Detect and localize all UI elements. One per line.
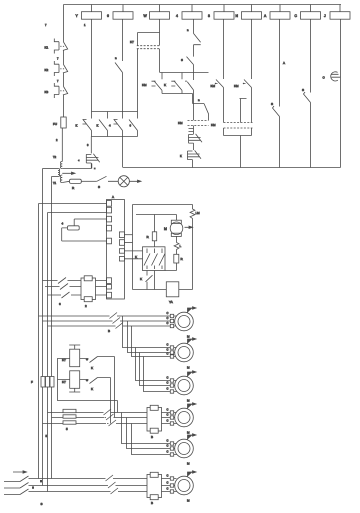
svg-text:YA: YA [169,300,173,304]
svg-text:C: C [167,380,169,384]
contact KM5a [211,19,224,88]
contact K4a on KM4 column [187,19,201,56]
coil KM2 [107,5,133,20]
fuse FU2c [50,377,54,388]
svg-text:C: C [167,316,169,320]
svg-text:J: J [324,14,326,18]
wire M4 cont [113,413,147,424]
svg-text:S: S [98,185,100,189]
svg-text:1: 1 [84,23,86,27]
svg-text:n: n [198,98,200,102]
wire tap to strip 2 [48,212,107,214]
brake YA [166,282,179,304]
terminal L7 [107,285,112,290]
svg-text:K: K [135,255,137,259]
terminal M1-1 [167,311,174,318]
svg-text:M: M [187,462,190,466]
wire tap to strip 1 [39,203,107,205]
contact KM3a [185,73,193,121]
svg-text:4: 4 [109,124,111,128]
svg-text:M: M [187,335,190,339]
svg-text:L: L [180,244,182,248]
svg-text:C: C [167,407,169,411]
svg-text:C: C [167,351,169,355]
wire M4 out [162,413,177,424]
resistor R6 [63,415,76,418]
wire KM3 drop and branch [138,19,160,45]
arrow M3 [188,371,197,377]
contact SQ2 [302,19,311,167]
wire to resistor [62,181,69,182]
transformer TV secondary1 [58,169,60,177]
motor M6 [175,476,194,502]
wire staircase node C down [162,94,204,104]
contact bracket below dash1 [189,126,194,135]
fuse FU2b [46,377,50,388]
arrow mid tap [62,172,75,174]
svg-text:R: R [181,257,184,261]
svg-text:C: C [167,418,169,422]
thermal KK3 [180,150,201,167]
breaker pole QF6a [104,475,115,481]
terminal M4-1 [167,407,174,414]
svg-text:M: M [187,399,190,403]
contact KT1a [80,357,115,371]
svg-text:6: 6 [59,302,61,306]
motor M1 [175,312,194,338]
coil KM8 [295,5,321,20]
wire bottom bus [123,167,341,169]
wire below KT link [138,49,160,112]
terminal R2 [119,240,132,246]
breaker pole QF4c [107,420,118,426]
wire node B to bottom bus [122,137,124,168]
svg-text:9: 9 [87,143,89,147]
relay KT1 [62,345,80,367]
svg-text:7: 7 [57,57,59,61]
contact row1 c3 [114,112,123,137]
svg-text:7: 7 [45,23,47,27]
terminal L4 [107,225,112,231]
terminal M6-3 [167,486,174,493]
svg-text:S: S [41,502,43,506]
terminal L6 [107,278,112,284]
breaker pole QF1a [108,313,119,319]
svg-text:C: C [167,449,169,453]
wire top bus [64,4,342,6]
terminal M4-2 [167,412,174,419]
svg-text:C: C [167,375,169,379]
terminal M2-3 [167,351,174,358]
svg-text:K: K [91,366,93,370]
terminal R1 [119,232,132,238]
coil KM1 [76,5,102,20]
svg-text:M: M [187,499,190,503]
coil KM5 [208,5,234,20]
breaker pole QF6b [107,482,118,488]
wire R3 to contact box [154,241,156,247]
terminal M2-2 [167,347,174,354]
contact SB1 [45,39,68,54]
wire tap right to KK1 [62,164,92,169]
svg-text:C: C [167,386,169,390]
svg-text:C: C [167,412,169,416]
wire tap lower-left [52,176,59,178]
switch blade c [62,292,82,298]
node line C [160,72,209,74]
wire M6 run [29,479,110,492]
wire tap left [43,168,59,170]
inductor LM2 [174,236,181,249]
svg-text:KM: KM [211,84,216,88]
terminal R4 [119,257,142,262]
arrow M5 [188,434,197,440]
svg-text:6: 6 [107,14,109,18]
svg-text:T1: T1 [53,181,57,185]
coil KM4 [176,5,202,20]
wire bus N [51,177,53,479]
svg-text:R: R [72,186,75,190]
svg-text:S: S [271,102,273,106]
breaker pole QF4b [105,414,116,420]
arrow motor M0 [185,226,193,228]
wire resistor to switch [81,180,97,182]
wire M3 branch [136,348,177,392]
wire M6 out [162,479,177,492]
wire rail to transformer [61,128,63,162]
svg-text:2: 2 [56,138,58,142]
svg-text:4: 4 [176,14,178,18]
contact K4b on KM4 column [181,57,194,73]
node line A [92,111,138,113]
coil KM3 [144,5,170,20]
wire resistor top jog [74,219,106,226]
svg-text:7: 7 [57,79,59,83]
wire M5 branch [122,413,177,455]
transformer TV secondary2 [53,175,62,185]
svg-text:C: C [167,480,169,484]
svg-text:2: 2 [85,304,87,308]
contact KM2a [164,73,182,94]
svg-text:LM: LM [196,211,201,215]
wire KT verticals [111,357,118,424]
contact K5 [198,98,209,120]
inductor LM1 [190,209,200,218]
terminal M5-2 [167,443,174,450]
terminal L3 [107,216,112,222]
contact SQ1 [271,19,285,167]
svg-text:C: C [323,76,326,80]
svg-text:C: C [167,342,169,346]
terminal M2-1 [167,342,174,349]
lamp HL [118,176,129,187]
terminal M3-2 [167,380,174,387]
breaker pole QF6c [109,488,120,494]
svg-text:K: K [76,124,78,128]
breaker pole QF1c [114,323,125,329]
svg-text:C: C [167,438,169,442]
contactor KM6 box [147,472,162,499]
wire bus L3 [47,213,49,492]
node line B [92,136,138,138]
svg-text:n: n [187,28,189,32]
contact row1 c4 [129,112,138,137]
wire bus L2 [42,169,44,486]
svg-text:8: 8 [208,14,210,18]
svg-text:KM: KM [178,121,183,125]
contact KM1a [142,73,162,94]
svg-text:6: 6 [130,124,132,128]
terminal R3 [119,249,142,254]
terminal M4-3 [167,418,174,425]
motor M4 [175,408,194,434]
svg-text:KM: KM [211,123,216,127]
svg-text:B: B [108,329,110,333]
svg-text:C: C [167,347,169,351]
contact SB3 [45,83,68,98]
terminal M1-2 [167,316,174,323]
wire below dash2 [224,128,252,168]
contact row1 c1 [83,112,92,137]
resistor R4 [174,250,184,264]
switch blade b [60,284,81,290]
svg-text:n: n [115,56,117,60]
switch QS b [20,483,29,489]
resistor R7 [63,421,76,424]
wire box5/6 columns to dash2 [224,88,252,123]
svg-text:C: C [167,321,169,325]
arrow M1 [188,307,197,313]
svg-text:R: R [147,235,150,239]
svg-text:5: 5 [66,427,68,431]
terminal M5-3 [167,449,174,456]
wire R4 down [155,263,177,290]
svg-text:KT: KT [130,40,134,44]
svg-text:KM: KM [142,83,147,87]
svg-text:K: K [97,124,99,128]
svg-text:C: C [167,473,169,477]
arrow M2 [188,338,197,344]
switch QS a [20,476,29,482]
mech link KM dashed 2 [211,123,253,129]
svg-text:F: F [31,380,33,384]
svg-text:C: C [167,486,169,490]
svg-text:C: C [167,443,169,447]
svg-text:K1: K1 [45,46,49,50]
wire midbox feed [43,281,62,296]
contact row1 c2 [99,112,108,137]
wire KT left loop [58,359,118,401]
contact box KM block [135,247,165,271]
contact KM lower [140,271,153,290]
dc motor M0 [164,220,183,236]
svg-text:KT: KT [62,380,66,384]
terminal M1-3 [167,321,174,328]
switch QS c [20,489,29,495]
wire drive loop [133,205,193,290]
wire midbox to strip [96,281,107,296]
contactor KM4 box [147,405,162,433]
wire supply stubs [4,482,20,495]
wire M2 branch [123,316,177,357]
contact KT2a [80,378,111,392]
motor M5 [175,439,194,465]
wire drop KM1 column [91,19,93,111]
svg-text:S: S [181,58,183,62]
svg-text:K: K [180,154,182,158]
junction J1 [40,480,42,482]
svg-text:A: A [283,61,285,65]
svg-text:N: N [236,14,239,18]
svg-text:M: M [164,227,167,231]
wire rail segments [63,5,65,118]
thermal KK2 [189,134,203,150]
resistor R1 [70,179,82,190]
arrow supply [13,471,27,473]
svg-text:W: W [144,14,148,18]
svg-text:C: C [295,14,298,18]
fuse FU1 [53,117,66,128]
contact SB2 [45,61,68,76]
terminal L1 [107,201,112,207]
switch SA1 [97,176,118,189]
terminal M3-1 [167,375,174,382]
coil KM9 [324,5,350,20]
wire M4 feed [43,413,107,424]
coil KM6 [236,5,262,20]
contactor KM mid [81,276,96,302]
svg-text:M: M [187,366,190,370]
wire M6 cont [115,479,147,492]
arrow lamp out [129,180,141,182]
breaker pole QF1b [111,318,122,324]
mech link KT dashed [130,40,160,49]
svg-text:K2: K2 [45,68,49,72]
wire M1 feed 3 [48,325,115,327]
terminal L2 [107,207,112,213]
svg-text:B: B [151,435,153,439]
terminal M6-2 [167,480,174,487]
junction J2 [32,486,34,488]
terminal L8 [107,292,112,298]
svg-text:K: K [140,277,142,281]
wire M1 feed 1 [39,315,109,317]
svg-text:B: B [151,501,153,505]
resistor R5 [63,409,76,412]
bell HA [323,19,341,167]
arrow M4 [188,403,197,409]
relay KT2 [62,371,80,392]
fuse FU2a [41,377,45,388]
wire inner top [136,215,177,232]
mech link KM dashed 1 [178,121,209,126]
svg-text:K: K [164,83,166,87]
svg-text:C: C [167,311,169,315]
breaker pole QF4a [102,409,113,415]
svg-text:S: S [302,88,304,92]
switch blade a [58,278,81,284]
svg-text:A: A [112,195,114,199]
resistor R3 [147,232,157,241]
svg-text:T2: T2 [53,155,57,159]
arrow M6 [188,471,197,477]
wire bus L1 [38,204,40,479]
thermal contact KK1 [78,137,100,170]
wire M1 feed 2 [43,320,112,322]
svg-text:Y: Y [76,14,79,18]
svg-text:K3: K3 [45,90,49,94]
terminal M6-1 [167,473,174,480]
svg-text:K: K [91,387,93,391]
motor M3 [175,376,194,402]
transformer TV primary [53,155,62,169]
svg-text:4: 4 [62,222,64,226]
resistor R2 [62,222,80,231]
motor M2 [175,343,194,369]
svg-text:KM: KM [234,84,239,88]
contact K on KM2 column [115,19,123,111]
wire M1 feed cont [119,316,177,326]
terminal strip A1 [107,195,125,299]
contact KM6a [234,19,252,88]
svg-text:FU: FU [53,122,57,126]
wire resistor left loop [62,228,107,241]
terminal M3-3 [167,386,174,393]
terminal L5 [107,238,112,244]
svg-text:«: « [78,158,80,162]
svg-text:A: A [264,14,267,18]
terminal M5-1 [167,438,174,445]
svg-text:M: M [187,431,190,435]
coil KM7 [264,5,290,20]
